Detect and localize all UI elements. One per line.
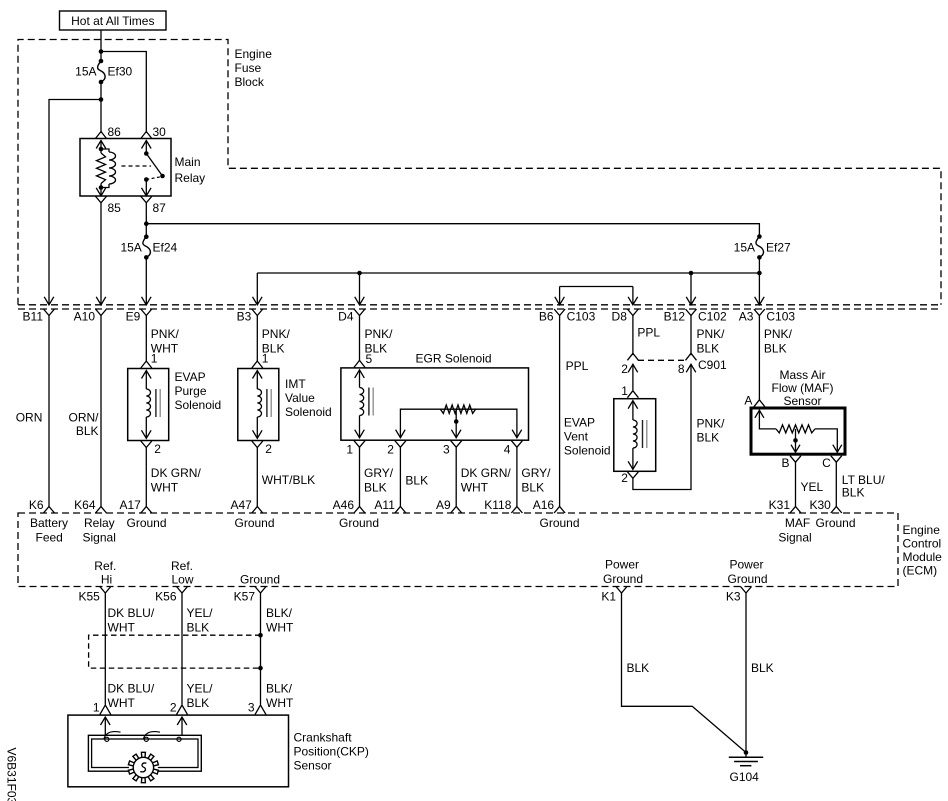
EGR wiper wire <box>455 409 457 438</box>
svg-text:Relay: Relay <box>175 171 206 185</box>
svg-text:87: 87 <box>153 201 167 215</box>
connector pin B11 arrow <box>44 297 54 305</box>
ECM pin A47 label <box>230 498 252 512</box>
svg-text:WHT: WHT <box>461 481 489 495</box>
wire resistor to pin C <box>815 429 837 452</box>
wire label PNK/BLK <box>365 327 394 356</box>
pin 1 label <box>262 352 269 366</box>
wire coil bottom to pin 85 <box>100 188 102 196</box>
ECM label Ground A46 <box>339 516 379 530</box>
connector pin A3 arrow <box>755 297 765 305</box>
wire label PNK/BLK <box>764 327 793 356</box>
svg-text:Ground: Ground <box>603 572 643 586</box>
relay box U1 Main Relay <box>80 139 171 197</box>
svg-text:PNK/: PNK/ <box>262 327 291 341</box>
wire vent pin2 return to C901-8 PNK/BLK <box>633 364 691 489</box>
svg-text:WHT: WHT <box>266 696 294 710</box>
svg-text:BLK: BLK <box>697 431 720 445</box>
svg-text:B12: B12 <box>664 310 686 324</box>
EGR solenoid label <box>416 352 492 366</box>
svg-text:GRY/: GRY/ <box>521 466 551 480</box>
svg-text:2: 2 <box>621 471 628 485</box>
svg-text:WHT: WHT <box>108 621 136 635</box>
ECM pin A9 label <box>436 498 451 512</box>
svg-text:3: 3 <box>248 701 255 715</box>
wire label GRY/BLK <box>521 466 551 495</box>
CKP element inner rect <box>92 739 198 768</box>
svg-text:Ref.: Ref. <box>94 559 116 573</box>
ECM pin K1 fork <box>616 587 627 594</box>
ECM label Ground A16 <box>540 516 580 530</box>
svg-text:B11: B11 <box>23 310 44 324</box>
svg-text:Hi: Hi <box>101 573 112 587</box>
svg-text:Control: Control <box>903 537 942 551</box>
svg-text:Sensor: Sensor <box>783 394 821 408</box>
ECM pin K1 label <box>601 590 616 604</box>
wire label YEL/BLK lower <box>187 682 214 711</box>
solenoid L3 EGR box <box>341 368 529 440</box>
wire D4 to EGR pin 5 PNK/BLK <box>359 315 361 361</box>
connector pin B3 arrow <box>253 297 263 305</box>
pin 87 fork <box>141 196 152 203</box>
pin 2 label <box>387 443 394 457</box>
svg-text:4: 4 <box>504 443 511 457</box>
svg-text:Purge: Purge <box>175 384 207 398</box>
wire label BLK K1 <box>627 661 650 675</box>
relay coil inductor arcs <box>101 149 116 188</box>
svg-text:GRY/: GRY/ <box>364 466 394 480</box>
wire Ef27 output down to A3 <box>758 257 760 304</box>
svg-text:Feed: Feed <box>36 531 63 545</box>
ECM pin K118 tent <box>511 507 522 514</box>
EGR pin 5 tent <box>354 360 365 367</box>
relay label <box>175 155 206 185</box>
MAF pin C fork <box>831 456 842 463</box>
pin 1 label <box>151 352 158 366</box>
svg-text:DK BLU/: DK BLU/ <box>108 606 155 620</box>
CKP pin 1 arrow inside <box>101 717 111 735</box>
CKP pin 3 label <box>248 701 255 715</box>
wire label BLK/WHT <box>266 606 294 635</box>
wire label BLK <box>405 474 428 488</box>
wire label LT BLU/BLK <box>842 473 886 500</box>
svg-text:K31: K31 <box>769 498 791 512</box>
wire label PNK/BLK <box>697 417 726 445</box>
EGR pot resistor <box>440 405 475 413</box>
ECM pin A11 label <box>374 498 395 512</box>
svg-text:ORN/: ORN/ <box>69 411 100 425</box>
svg-text:K118: K118 <box>484 498 511 512</box>
pin 85 label <box>108 201 122 215</box>
pin 1 arrow into box <box>628 401 638 409</box>
pin 3 arrow out of box <box>451 430 461 438</box>
svg-text:EVAP: EVAP <box>175 370 206 384</box>
pin 86 arrow into relay <box>96 141 106 149</box>
pin 30 arrow into relay <box>142 141 152 149</box>
svg-text:Ground: Ground <box>816 516 856 530</box>
wire to coil <box>145 371 147 390</box>
svg-text:Fuse: Fuse <box>235 61 262 75</box>
ECM pin K31 label <box>769 498 791 512</box>
IMT label <box>285 377 332 419</box>
svg-text:YEL: YEL <box>801 480 824 494</box>
pin C arrow out of box <box>833 445 842 453</box>
node Ef30 output junction <box>99 97 104 102</box>
svg-text:K1: K1 <box>601 590 616 604</box>
pin label E9 <box>126 310 141 324</box>
svg-text:MAF: MAF <box>785 516 810 530</box>
pin label D4 <box>338 310 354 324</box>
solenoid pin 2 fork <box>141 441 152 448</box>
pin label B12 C102 <box>664 310 727 324</box>
node Ef27 output junction <box>757 271 762 276</box>
ECM pin K56 label <box>155 590 177 604</box>
svg-text:A17: A17 <box>119 498 141 512</box>
pin 2 arrow out of box <box>628 461 638 469</box>
IMT pin 1 tent <box>252 361 263 368</box>
svg-text:BLK: BLK <box>187 696 210 710</box>
connector pin B12 fork <box>686 309 697 316</box>
wire relay 85 down to A10 <box>100 203 102 305</box>
ECM pin K57 label <box>234 590 256 604</box>
pin C label <box>822 456 831 470</box>
wire label YEL/BLK <box>187 606 214 635</box>
ECM pin A16 label <box>533 498 555 512</box>
svg-text:Solenoid: Solenoid <box>285 405 332 419</box>
ECM pin K64 tent <box>96 507 107 514</box>
wire Ef24 output to E9 <box>145 257 147 304</box>
EVAP vent core <box>643 420 647 448</box>
svg-text:WHT: WHT <box>151 481 179 495</box>
ECM pin A17 label <box>119 498 141 512</box>
IMT coil <box>257 389 261 417</box>
pin B label <box>781 456 789 470</box>
connector pin D4 arrow <box>355 297 365 305</box>
ECM pin K57 fork <box>255 587 266 594</box>
fuse Ef27 15A <box>734 234 791 259</box>
ECM label <box>903 523 943 578</box>
fuse Ef24 15A <box>120 234 177 259</box>
connector pin A10 arrow <box>96 297 106 305</box>
node 87 junction to Ef27 feed line <box>144 221 149 226</box>
svg-text:Module: Module <box>903 550 943 564</box>
svg-text:1: 1 <box>151 352 158 366</box>
pin 1 label <box>621 384 628 398</box>
fuse block bottom dashed edge <box>18 304 941 306</box>
connector pin D4 fork <box>354 309 365 316</box>
pin 86 label <box>108 125 122 139</box>
ground G104 symbol <box>729 750 763 766</box>
CKP pin 3 tent <box>255 705 266 715</box>
svg-text:G104: G104 <box>730 770 760 784</box>
wire D8 to C901 PPL <box>632 315 634 356</box>
pin 85 fork <box>96 196 107 203</box>
connector pin B6 fork <box>554 309 565 316</box>
connector pin D8 arrow <box>628 297 638 305</box>
svg-text:Solenoid: Solenoid <box>564 444 611 458</box>
wire coil to pin 2 <box>256 417 258 438</box>
sensor U3 CKP box <box>68 715 289 787</box>
wire B3 to IMT pin 1 PNK/BLK <box>256 315 258 362</box>
pin 30 connector tent <box>141 132 152 139</box>
wire label ORN <box>16 411 43 425</box>
wire A10 to K64 ORN/BLK <box>100 315 102 507</box>
pin 1 arrow out of box <box>355 430 365 438</box>
pin 4 label <box>504 443 511 457</box>
CKP pin 2 label <box>170 701 177 715</box>
CKP pin 2 arrow inside <box>177 717 187 735</box>
svg-text:2: 2 <box>170 701 177 715</box>
MAF pin A tent <box>754 400 765 407</box>
pin 2 arrow out of box <box>253 430 263 438</box>
svg-text:Power: Power <box>729 558 763 572</box>
pin 2 label <box>621 362 628 376</box>
wire label PPL <box>566 359 589 373</box>
wire C to K30 LT BLU/BLK <box>835 462 837 506</box>
wire label BLK/WHT lower <box>266 682 294 711</box>
svg-text:E9: E9 <box>126 310 141 324</box>
ECM label MAF Signal <box>778 516 811 545</box>
relay switch arm <box>146 154 165 179</box>
node B12 tap <box>689 271 694 276</box>
svg-text:2: 2 <box>387 443 394 457</box>
svg-text:EGR Solenoid: EGR Solenoid <box>416 352 492 366</box>
svg-text:WHT: WHT <box>108 696 136 710</box>
ECM pin K3 fork <box>741 587 752 594</box>
svg-text:PNK/: PNK/ <box>151 327 180 341</box>
svg-text:Signal: Signal <box>83 531 116 545</box>
pin 2 label <box>154 442 161 456</box>
IMT pin 2 fork <box>252 441 263 448</box>
svg-text:Low: Low <box>171 573 193 587</box>
node shield top junction <box>258 633 263 638</box>
svg-text:3: 3 <box>443 443 450 457</box>
engine fuse block dashed outline <box>18 40 941 305</box>
wire label DK GRN/WHT <box>461 466 512 495</box>
svg-text:Sensor: Sensor <box>294 759 332 773</box>
svg-text:Relay: Relay <box>84 516 115 530</box>
pin label B6 C103 <box>539 310 596 324</box>
MAF wiper wire <box>795 429 797 452</box>
CKP winding squiggle 1 <box>104 732 121 742</box>
svg-text:8: 8 <box>678 362 685 376</box>
wire to coil <box>632 401 634 420</box>
connector pin B12 arrow <box>686 297 696 305</box>
wire feed line to Ef27 <box>146 224 759 237</box>
EGR pin 3 fork <box>451 441 462 448</box>
svg-text:C103: C103 <box>766 310 795 324</box>
EGR pin 4 fork <box>511 441 522 448</box>
vent solenoid pin 1 tent <box>627 391 638 398</box>
svg-text:Ef24: Ef24 <box>153 241 178 255</box>
wire switch to pin 87 <box>145 180 147 196</box>
svg-text:15A: 15A <box>120 241 141 255</box>
svg-text:Ground: Ground <box>127 516 167 530</box>
svg-text:Ef27: Ef27 <box>766 241 791 255</box>
svg-text:Block: Block <box>235 75 265 89</box>
svg-text:Vent: Vent <box>564 430 589 444</box>
shield dashed box <box>89 635 261 668</box>
svg-text:Flow (MAF): Flow (MAF) <box>772 381 834 395</box>
ground label G104 <box>730 770 760 784</box>
wire label DK GRN/WHT <box>151 466 202 495</box>
connector pin A3 fork <box>754 309 765 316</box>
svg-text:EVAP: EVAP <box>564 416 595 430</box>
wire label GRY/BLK <box>364 466 394 495</box>
EVAP vent coil <box>633 420 637 448</box>
pin label D8 <box>612 310 628 324</box>
wire power bus to B3 D4 B12 <box>257 273 759 305</box>
svg-text:Ef30: Ef30 <box>108 65 133 79</box>
wire label PNK/BLK <box>262 327 291 356</box>
ECM label Relay Signal <box>83 516 116 545</box>
svg-text:PNK/: PNK/ <box>365 327 394 341</box>
svg-text:WHT/BLK: WHT/BLK <box>262 473 315 487</box>
ECM dashed box <box>18 513 898 587</box>
node MAF wiper <box>793 438 798 443</box>
svg-text:YEL/: YEL/ <box>187 682 214 696</box>
CKP reluctor gear <box>128 752 158 782</box>
relay coil resistor zigzag <box>97 149 106 188</box>
node coil top <box>99 147 104 152</box>
svg-text:Engine: Engine <box>903 523 941 537</box>
sensor U2 MAF box <box>751 408 845 454</box>
wire B12 to C901 PNK/BLK <box>690 315 692 356</box>
svg-text:ORN: ORN <box>16 411 43 425</box>
wire pin3 to A9 DK GRN/WHT <box>455 447 457 506</box>
svg-text:Mass Air: Mass Air <box>779 368 825 382</box>
svg-text:Engine: Engine <box>235 47 273 61</box>
connector C901 dashed line <box>638 359 686 361</box>
wire E9 to solenoid pin 1 PNK/WHT <box>145 315 147 362</box>
wire label BLK K3 <box>751 661 774 675</box>
pin 8 label <box>678 362 685 376</box>
ECM label Ref. Hi <box>94 559 116 587</box>
wire 86 to coil <box>100 141 102 150</box>
svg-text:2: 2 <box>265 442 272 456</box>
connector pin E9 fork <box>141 309 152 316</box>
svg-text:BLK: BLK <box>697 342 720 356</box>
svg-text:BLK: BLK <box>764 342 787 356</box>
IMT core <box>267 389 271 417</box>
svg-text:PPL: PPL <box>566 359 589 373</box>
svg-text:BLK: BLK <box>364 481 387 495</box>
svg-text:BLK/: BLK/ <box>266 682 293 696</box>
pin 1 label <box>346 443 353 457</box>
ECM pin A9 tent <box>451 507 462 514</box>
svg-text:C103: C103 <box>567 310 596 324</box>
pin 87 arrow out of relay <box>142 188 152 196</box>
wire pin4 to K118 GRY/BLK <box>516 447 518 506</box>
ECM label Ground K57 <box>240 573 280 587</box>
wire Ef30 output down to relay pin 86 <box>100 82 102 133</box>
svg-text:Power: Power <box>605 558 639 572</box>
node Hot at All Times label box <box>60 11 167 30</box>
C901 pin 2 arrow <box>628 364 638 372</box>
connector pin A10 fork <box>96 309 107 316</box>
MAF resistor <box>776 425 815 433</box>
pin A arrow into box <box>755 410 764 418</box>
ECM pin A16 tent <box>554 507 565 514</box>
svg-text:PNK/: PNK/ <box>697 417 726 431</box>
wire coil to pin 2 <box>632 448 634 469</box>
ECM label Power Ground K3 <box>727 558 767 587</box>
svg-text:V6B31F03: V6B31F03 <box>5 748 19 801</box>
wire A3 to MAF pin A PNK/BLK <box>758 315 760 400</box>
svg-text:IMT: IMT <box>285 377 306 391</box>
svg-text:B3: B3 <box>237 310 252 324</box>
svg-text:Ground: Ground <box>339 516 379 530</box>
ECM pin A11 tent <box>395 507 406 514</box>
pin 4 arrow out of box <box>512 430 522 438</box>
svg-text:Crankshaft: Crankshaft <box>294 731 353 745</box>
svg-text:Main: Main <box>175 155 201 169</box>
svg-text:1: 1 <box>621 384 628 398</box>
ECM pin K55 fork <box>100 587 111 594</box>
wire label PNK/BLK <box>697 327 726 356</box>
pin 2 arrow out of box <box>142 430 152 438</box>
svg-text:B: B <box>781 456 789 470</box>
svg-text:Ground: Ground <box>727 572 767 586</box>
ECM pin A17 tent <box>141 507 152 514</box>
pin 2 label <box>621 471 628 485</box>
wire branch to relay pin 30 <box>101 52 146 134</box>
pin 86 connector tent <box>96 132 107 139</box>
wire K1 BLK to ground <box>622 593 747 753</box>
svg-text:K64: K64 <box>74 498 96 512</box>
svg-text:BLK/: BLK/ <box>266 606 293 620</box>
wire K56 to CKP pin 2 YEL/BLK <box>181 593 183 705</box>
svg-text:B6: B6 <box>539 310 554 324</box>
svg-text:BLK: BLK <box>627 661 650 675</box>
svg-text:DK BLU/: DK BLU/ <box>108 682 155 696</box>
svg-text:BLK: BLK <box>521 481 544 495</box>
connector row dashed line <box>18 308 941 310</box>
diagram id V6B31F03 <box>5 748 19 801</box>
wire to coil <box>256 371 258 390</box>
svg-text:BLK: BLK <box>76 424 99 438</box>
wire label ORN/BLK <box>69 411 100 439</box>
svg-text:86: 86 <box>108 125 122 139</box>
svg-text:Signal: Signal <box>778 531 811 545</box>
wire A to resistor <box>759 410 776 429</box>
svg-text:A: A <box>744 394 752 408</box>
EGR pin 2 fork <box>395 441 406 448</box>
ECM pin K118 label <box>484 498 511 512</box>
ECM pin K31 tent <box>790 507 801 514</box>
svg-text:Ref.: Ref. <box>171 559 193 573</box>
svg-text:15A: 15A <box>734 241 755 255</box>
MAF sensor label <box>772 368 834 408</box>
svg-text:WHT: WHT <box>266 621 294 635</box>
svg-text:BLK: BLK <box>751 661 774 675</box>
ECM label Power Ground K1 <box>603 558 643 587</box>
wire relay 87 down to Ef24 <box>145 203 147 237</box>
node hot feed junction to relay pin 30 <box>99 49 104 54</box>
EGR coil <box>360 388 364 416</box>
EVAP purge coil <box>146 389 150 417</box>
ECM pin A47 tent <box>252 507 263 514</box>
vent pin 2 fork <box>627 472 638 479</box>
wire bridge B6 to D8 <box>560 287 633 305</box>
wire pin2 to A47 WHT/BLK <box>256 448 258 507</box>
wire pin2 to A11 BLK <box>399 447 401 506</box>
svg-text:Hot at All Times: Hot at All Times <box>71 14 154 28</box>
CKP element outer rect <box>88 735 201 771</box>
svg-text:Position(CKP): Position(CKP) <box>294 745 369 759</box>
svg-text:A47: A47 <box>230 498 252 512</box>
wire coil to pin 1 <box>359 416 361 438</box>
